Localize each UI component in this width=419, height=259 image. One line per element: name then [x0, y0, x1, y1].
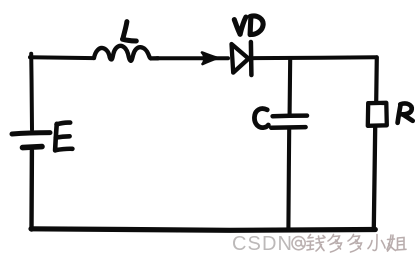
- wire bottom rail: [31, 229, 375, 231]
- @ sign of watermark: [292, 237, 305, 250]
- char 钱: [307, 235, 325, 252]
- current arrow head: [202, 53, 218, 65]
- label C: [254, 109, 268, 128]
- wire left vertical (top half, battery + to top rail): [29, 54, 34, 130]
- label E: [55, 123, 72, 151]
- wire left vertical (battery - to bottom rail): [29, 151, 34, 230]
- char 多: [328, 235, 342, 253]
- char 小: [368, 235, 385, 251]
- diode VD cathode bar: [249, 42, 254, 75]
- label L: [123, 22, 137, 41]
- label R: [398, 103, 413, 122]
- wire resistor bottom lead: [374, 127, 375, 228]
- battery E negative plate (short): [23, 147, 43, 148]
- capacitor C top plate: [273, 113, 307, 118]
- wire top rail with current arrow segment: [157, 56, 228, 60]
- capacitor C bottom plate: [271, 125, 305, 130]
- wire top rail right segment: [252, 57, 377, 58]
- wire capacitor branch top: [288, 58, 293, 113]
- wire capacitor branch bottom: [286, 130, 291, 230]
- resistor R box: [368, 103, 387, 126]
- svg-text:CSDN: CSDN: [232, 233, 293, 255]
- wire top rail left segment: [30, 55, 94, 60]
- battery E positive plate (long): [12, 133, 50, 134]
- char 多 (second): [348, 235, 362, 253]
- wire right vertical (top rail to resistor): [374, 57, 379, 102]
- diode VD triangle (anode): [232, 44, 249, 73]
- inductor L coil: [94, 46, 158, 61]
- char 姐: [387, 235, 406, 251]
- label VD: [234, 16, 263, 35]
